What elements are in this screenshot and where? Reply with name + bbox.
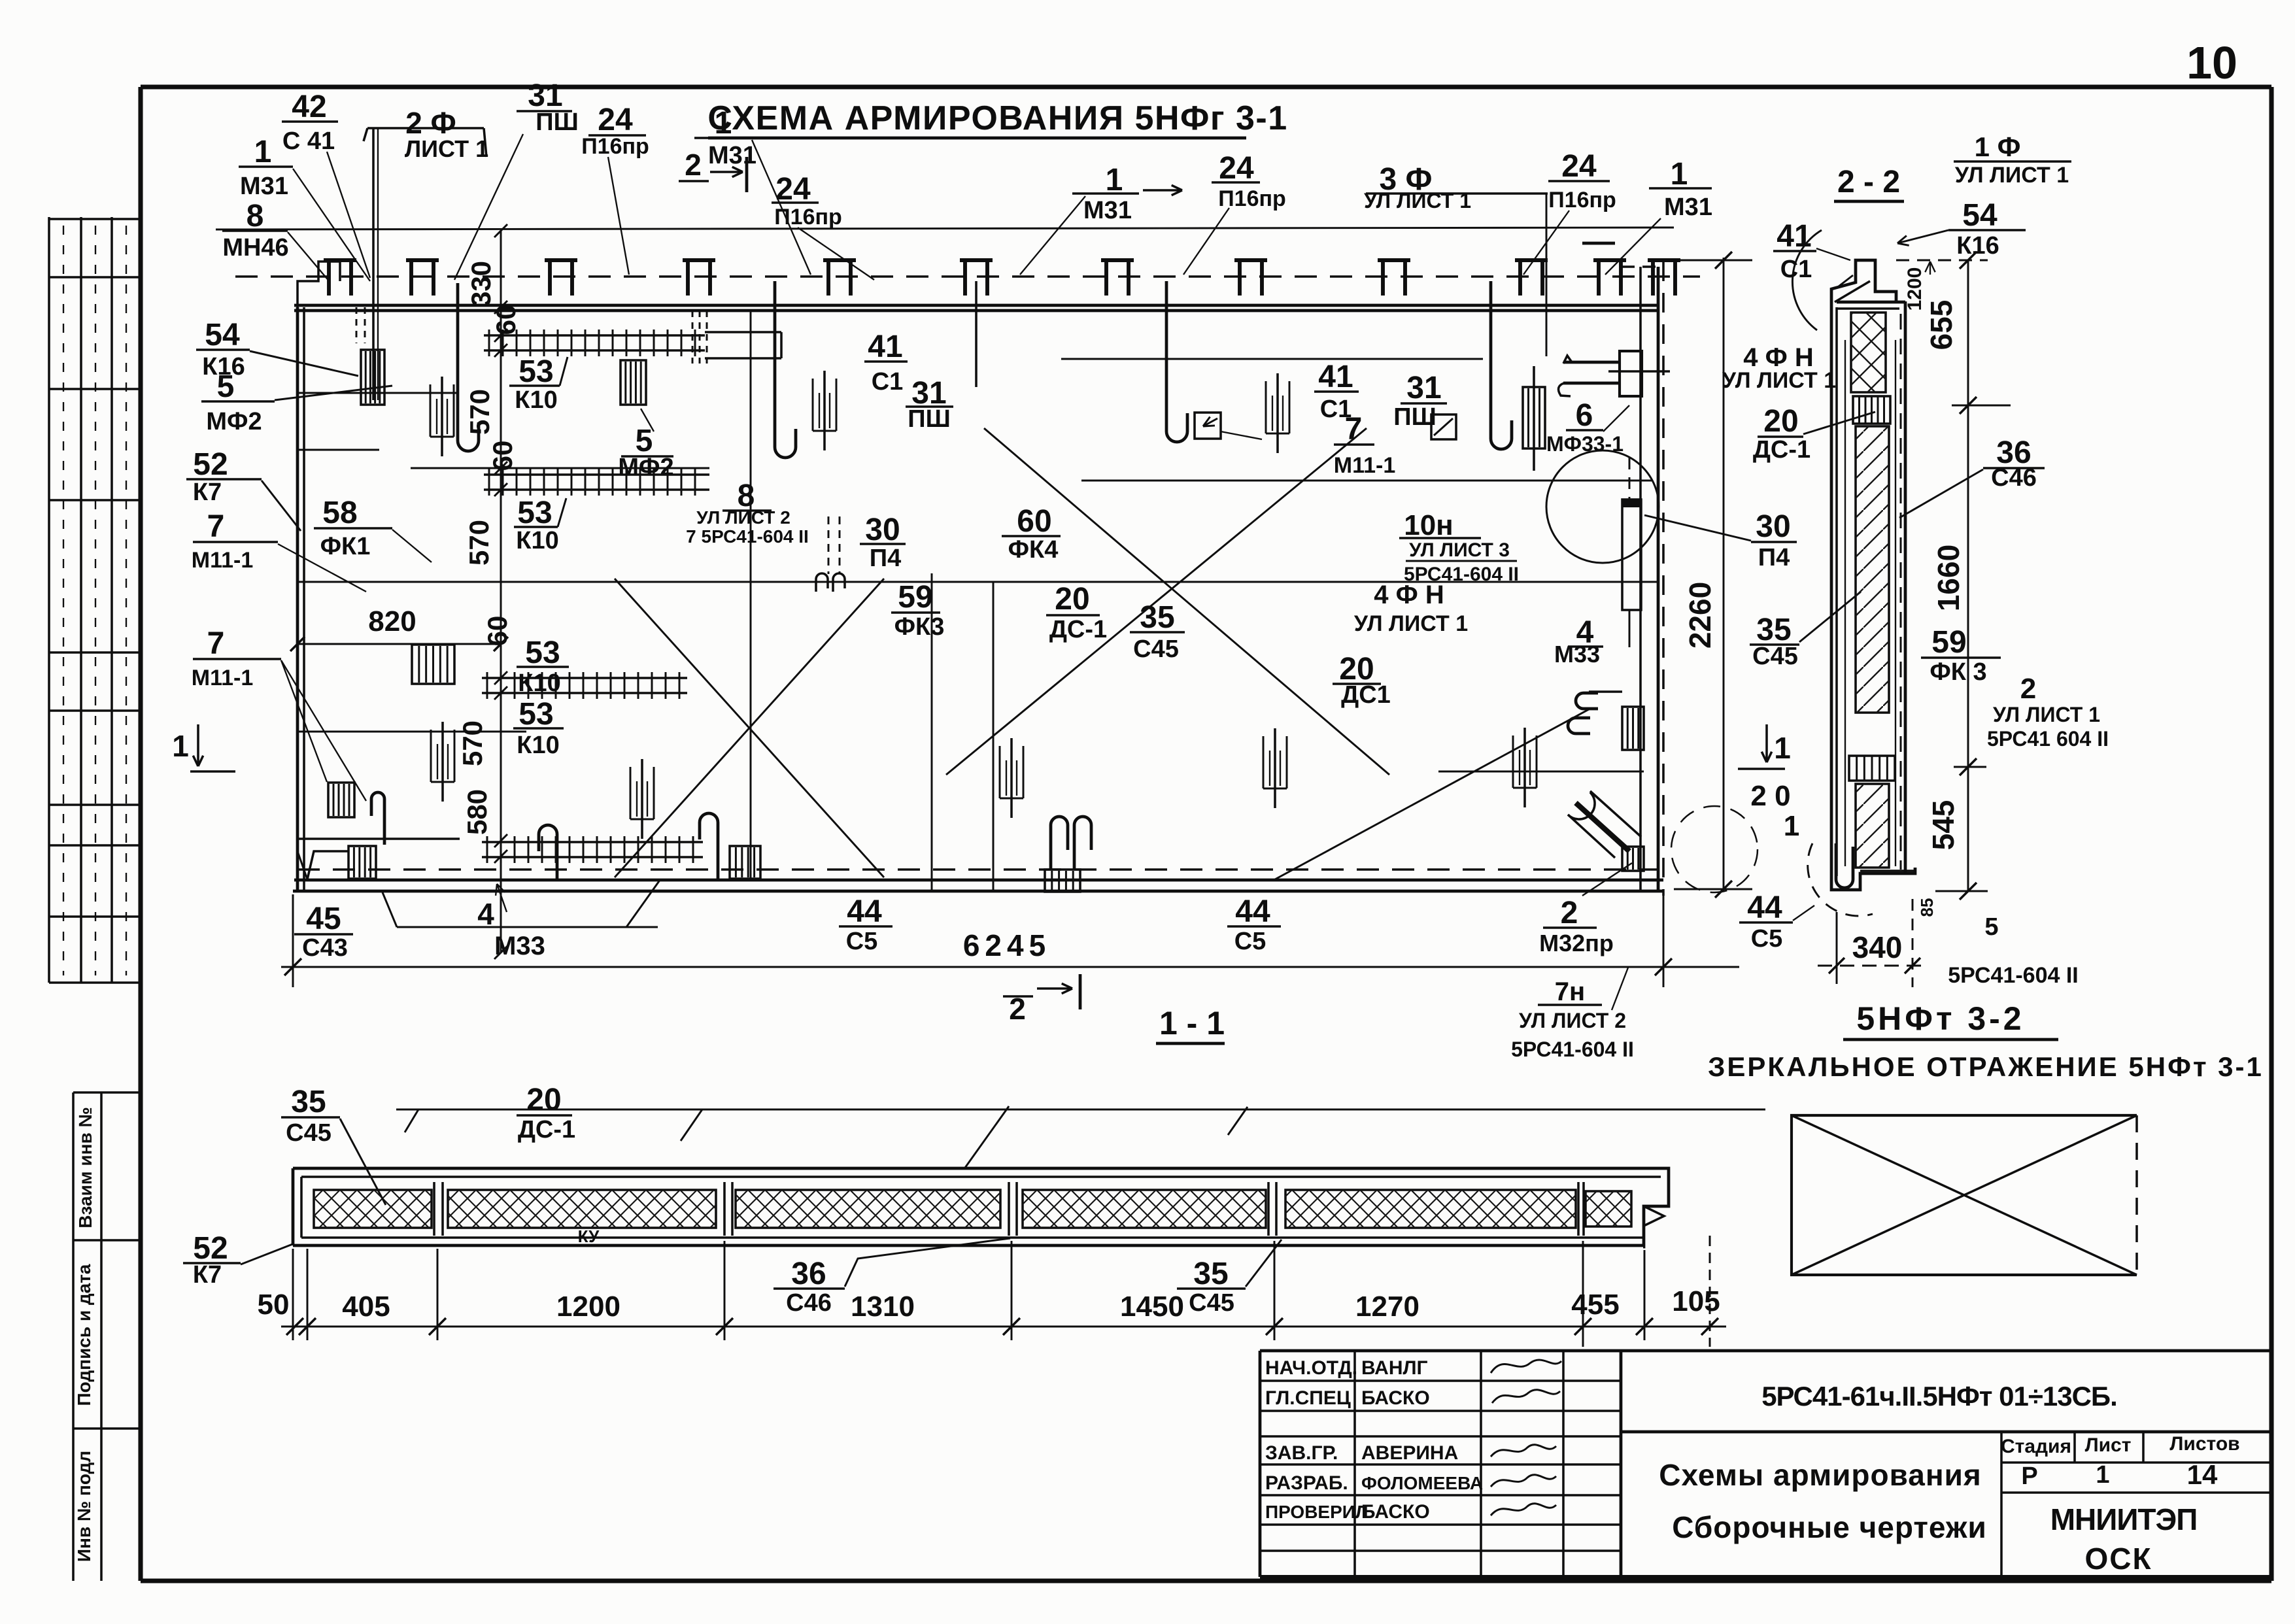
interior horizontal line y1119 <box>297 731 526 733</box>
strip separator 1 <box>434 1182 443 1236</box>
svg-text:7 5РС41-604 II: 7 5РС41-604 II <box>686 526 809 547</box>
label 52/K7 left <box>186 447 262 506</box>
svg-text:РАЗРАБ.: РАЗРАБ. <box>1265 1472 1348 1494</box>
leader 24/P16pr c <box>1183 208 1229 275</box>
label 54/K16 left <box>196 318 250 381</box>
label 1/M31 b <box>694 106 756 169</box>
label 2/M32pr <box>1539 896 1614 956</box>
strip hatch block 1 <box>314 1190 432 1228</box>
svg-text:85: 85 <box>1917 898 1937 917</box>
interior horizontal line y549 right <box>1061 358 1483 360</box>
svg-text:30: 30 <box>865 513 900 547</box>
svg-text:К10: К10 <box>518 669 560 697</box>
svg-text:41: 41 <box>1776 219 1811 254</box>
svg-text:УЛ ЛИСТ 1: УЛ ЛИСТ 1 <box>1955 163 2069 188</box>
dim 6245 <box>281 894 1739 987</box>
svg-text:П16пр: П16пр <box>774 205 842 229</box>
label 52/K7 strip <box>183 1231 241 1289</box>
svg-text:1: 1 <box>254 135 272 169</box>
svg-text:1450: 1450 <box>1120 1291 1184 1323</box>
svg-text:6245: 6245 <box>963 928 1051 962</box>
svg-text:УЛ ЛИСТ 1: УЛ ЛИСТ 1 <box>1364 189 1471 212</box>
label 59/FK3 a <box>891 580 944 641</box>
svg-text:1270: 1270 <box>1355 1291 1419 1323</box>
title block right grid <box>1621 1432 2271 1577</box>
label 4/M33 right <box>1554 615 1603 668</box>
svg-text:ГЛ.СПЕЦ: ГЛ.СПЕЦ <box>1265 1387 1351 1409</box>
svg-text:С45: С45 <box>1133 635 1179 663</box>
svg-text:М31: М31 <box>708 142 756 169</box>
svg-text:С 41: С 41 <box>282 127 335 155</box>
leader 41/C1 top right <box>1816 248 1850 260</box>
interior horizontal line y688 <box>297 449 379 451</box>
label 53/K10 b2 <box>514 496 559 554</box>
svg-text:ДС-1: ДС-1 <box>1049 616 1107 643</box>
svg-text:УЛ ЛИСТ 1: УЛ ЛИСТ 1 <box>1722 368 1836 393</box>
strip separator 4 <box>1268 1182 1276 1236</box>
leader 6/MF33-1 <box>1603 405 1629 431</box>
svg-text:4: 4 <box>477 897 494 931</box>
label 20/DS-1 a <box>1046 582 1107 643</box>
svg-text:М33: М33 <box>1554 641 1600 668</box>
section 2-2 middle hatch band <box>1856 426 1889 713</box>
ladder line 3 <box>482 672 687 699</box>
diagonal line d5 <box>1275 709 1589 879</box>
section 2-2 lower hatch band <box>1856 784 1889 868</box>
svg-text:20: 20 <box>526 1083 561 1117</box>
strip reference line top <box>396 1106 1765 1168</box>
svg-text:1: 1 <box>1106 163 1123 197</box>
mirror X rectangle <box>1792 1115 2137 1275</box>
svg-text:580: 580 <box>462 789 492 835</box>
strip hatch block 6 <box>1586 1191 1631 1226</box>
svg-text:БАСКО: БАСКО <box>1361 1501 1430 1523</box>
label 7/M11-1 left b <box>192 626 281 690</box>
svg-text:Стадия: Стадия <box>2001 1436 2071 1457</box>
label 53/K10 a <box>509 354 560 414</box>
interior vertical line x1519 <box>993 582 994 891</box>
label 1/M31 c with arrow <box>1072 163 1182 224</box>
svg-text:ПШ: ПШ <box>1393 403 1436 431</box>
svg-text:М11-1: М11-1 <box>192 666 254 690</box>
panel bottom edge <box>293 870 1663 891</box>
svg-text:1 - 1: 1 - 1 <box>1159 1005 1225 1041</box>
label 1/M31 d <box>1649 157 1712 221</box>
label 2F/LIST1 bracket <box>364 106 488 162</box>
svg-text:53: 53 <box>517 496 552 530</box>
svg-text:2: 2 <box>2020 673 2036 705</box>
hatched rect b <box>620 360 646 405</box>
hatched stirrup right <box>1523 366 1545 471</box>
svg-text:МН46: МН46 <box>222 234 288 262</box>
svg-text:Схемы армирования: Схемы армирования <box>1659 1458 1981 1492</box>
vertical dim chain labels <box>457 224 521 959</box>
svg-text:59: 59 <box>1931 625 1966 660</box>
hatched rect corner <box>348 846 376 879</box>
svg-text:54: 54 <box>1962 198 1997 233</box>
svg-text:41: 41 <box>868 330 902 364</box>
dashed legs below pi at 550 <box>356 307 365 343</box>
svg-text:1: 1 <box>2096 1461 2109 1489</box>
svg-text:ЗАВ.ГР.: ЗАВ.ГР. <box>1265 1442 1338 1464</box>
hatched rect a <box>361 350 384 405</box>
ladder line 1 <box>484 330 705 356</box>
svg-text:44: 44 <box>1235 894 1270 929</box>
svg-text:ПРОВЕРИЛ: ПРОВЕРИЛ <box>1265 1502 1368 1522</box>
left margin lower cells <box>73 1092 141 1581</box>
leader 54/K16 right <box>1897 230 1948 243</box>
strip outline <box>293 1168 1669 1247</box>
leader 52/K7 strip <box>241 1243 294 1264</box>
label 44/C5 b <box>1227 894 1281 955</box>
strip hatch block 3 <box>736 1190 1000 1228</box>
svg-text:330: 330 <box>466 261 496 307</box>
box symbol right <box>1431 414 1456 439</box>
leader 35/C45 strip right <box>1246 1240 1282 1287</box>
svg-text:2260: 2260 <box>1683 582 1717 649</box>
label 30/P4 a <box>860 513 906 572</box>
label 24/P16pr a <box>581 103 649 159</box>
svg-text:1660: 1660 <box>1931 545 1965 611</box>
svg-text:570: 570 <box>464 389 495 435</box>
label 59/FK3 right <box>1921 625 2001 686</box>
svg-text:24: 24 <box>775 172 811 207</box>
svg-text:ОСК: ОСК <box>2084 1542 2152 1576</box>
svg-text:10н: 10н <box>1404 509 1453 541</box>
svg-text:П4: П4 <box>870 545 901 572</box>
leader 54/K16 left <box>250 351 358 376</box>
section marker 2 bottom <box>1003 974 1080 1026</box>
detail circle big <box>1546 450 1659 563</box>
label 60/FK4 <box>1002 504 1061 564</box>
leader 20/DS-1 right <box>1803 412 1875 434</box>
svg-text:44: 44 <box>1747 890 1782 925</box>
svg-text:35: 35 <box>1193 1257 1228 1291</box>
svg-text:М11-1: М11-1 <box>1334 453 1396 478</box>
label 31/PSh top <box>517 78 579 136</box>
leader 8/MN46 <box>288 232 330 282</box>
interior vertical line x1148 <box>750 312 752 879</box>
label 41/C1 b <box>1314 360 1359 423</box>
svg-text:К10: К10 <box>515 386 557 414</box>
label 36/C46 strip <box>773 1257 845 1317</box>
panel top-left corner step <box>297 262 340 307</box>
shelf reference line <box>216 228 1674 229</box>
svg-text:7: 7 <box>1345 412 1363 447</box>
label 35/C45 strip left <box>281 1085 340 1147</box>
label 4/M33 bottom <box>382 879 660 960</box>
section 2-2 top crosshatch block <box>1851 313 1886 392</box>
hatched rect e <box>328 783 354 817</box>
leader 1/M31 a <box>293 169 370 281</box>
svg-text:С45: С45 <box>1189 1289 1234 1317</box>
svg-text:24: 24 <box>598 103 633 137</box>
svg-text:4 Ф Н: 4 Ф Н <box>1374 581 1444 609</box>
main title <box>707 99 1287 138</box>
section 2-2 coil 1 <box>1853 396 1890 424</box>
label 35/C45 a <box>1130 600 1185 663</box>
svg-text:ФК1: ФК1 <box>320 533 371 560</box>
label 53/K10 D <box>513 697 564 759</box>
svg-text:М32пр: М32пр <box>1539 930 1614 956</box>
svg-text:М31: М31 <box>1664 194 1712 221</box>
stirrup row lower <box>431 722 454 802</box>
svg-text:СХЕМА АРМИРОВАНИЯ 5НФг 3-1: СХЕМА АРМИРОВАНИЯ 5НФг 3-1 <box>707 99 1287 137</box>
label 24/P16pr b <box>772 172 842 229</box>
title block subject <box>1659 1458 1986 1544</box>
svg-text:М31: М31 <box>240 173 288 200</box>
j-hook bar 2 <box>458 283 479 451</box>
svg-text:5: 5 <box>217 369 235 404</box>
leader 5/MF2 left <box>275 386 392 400</box>
leaders 7/M11-1 left b <box>281 660 366 801</box>
interior horizontal mid line y890 <box>297 581 1659 583</box>
up-hook small <box>539 825 557 879</box>
panel left edge <box>297 307 304 891</box>
label 5NFt 3-2 title <box>1843 1000 2058 1040</box>
label 30/P4 right <box>1751 509 1797 571</box>
leader 1/M31 c <box>1020 196 1085 275</box>
label 20/DS-1 right <box>1753 404 1810 464</box>
label 7/M11-1 left a <box>192 509 278 573</box>
label 1F/UL LIST 1 top <box>1954 131 2071 188</box>
small up-hook left <box>371 792 384 845</box>
svg-text:УЛ ЛИСТ 2: УЛ ЛИСТ 2 <box>696 507 790 528</box>
leader 2/M32pr <box>1582 863 1632 896</box>
label 41/C1 top right <box>1773 219 1816 283</box>
label 20/DS-1 strip <box>517 1083 575 1143</box>
svg-text:М11-1: М11-1 <box>192 548 254 573</box>
dashed legs below pi at 1069 <box>692 311 707 364</box>
svg-text:С43: С43 <box>302 934 348 962</box>
svg-text:58: 58 <box>322 496 357 530</box>
interior horizontal line y601 <box>297 392 458 394</box>
svg-text:53: 53 <box>525 635 560 670</box>
strip separator 3 <box>1009 1182 1017 1236</box>
section marker 1 left <box>172 724 235 771</box>
svg-text:545: 545 <box>1926 800 1960 851</box>
svg-text:405: 405 <box>342 1291 390 1323</box>
svg-text:ДС-1: ДС-1 <box>518 1116 575 1143</box>
svg-text:50: 50 <box>258 1289 290 1321</box>
j-hook bar 5 <box>1491 281 1512 449</box>
dashed bar pair above 30/P4 label <box>816 516 845 592</box>
label 31/PSh b <box>906 376 953 433</box>
leader 36/C46 strip <box>845 1238 1010 1287</box>
label 4FN/UL LIST1 a <box>1354 581 1468 636</box>
section marker 1 right <box>1738 724 1799 842</box>
label 1/M31 a <box>239 135 293 200</box>
mark above MF33-1 <box>1582 242 1615 245</box>
strip hatch block 5 <box>1285 1190 1576 1228</box>
svg-text:Взаим инв №: Взаим инв № <box>75 1107 95 1228</box>
panel right edge <box>1622 262 1664 896</box>
svg-text:УЛ ЛИСТ 3: УЛ ЛИСТ 3 <box>1409 539 1510 561</box>
strip separator 2 <box>724 1182 732 1236</box>
svg-text:М33: М33 <box>494 932 545 960</box>
ladder line 4 <box>482 836 703 863</box>
svg-text:ФК 3: ФК 3 <box>1929 658 1986 686</box>
leader 7/M11-1 left a <box>278 544 366 592</box>
diagonal line d4 <box>615 579 884 877</box>
detail circle dashed bottom-right <box>1671 806 1758 892</box>
double up-hook <box>1051 817 1091 870</box>
svg-text:ДС1: ДС1 <box>1341 681 1391 709</box>
dim 820 <box>290 605 508 651</box>
svg-text:41: 41 <box>1318 360 1353 394</box>
svg-text:59: 59 <box>898 580 932 615</box>
svg-text:570: 570 <box>457 720 488 766</box>
label 45/C43 <box>294 902 353 962</box>
label 2-2 title <box>1834 165 1904 201</box>
svg-text:МНИИТЭП: МНИИТЭП <box>2050 1502 2198 1536</box>
leader 24/P16pr b <box>798 228 874 280</box>
svg-text:2: 2 <box>1561 896 1578 930</box>
svg-text:ФОЛОМЕЕВА: ФОЛОМЕЕВА <box>1361 1473 1483 1493</box>
svg-text:54: 54 <box>205 318 240 352</box>
label 58/FK1 <box>314 496 392 560</box>
label 8/UL LIST2 cluster <box>686 479 809 547</box>
leader 44/C5 c <box>1793 905 1814 921</box>
svg-text:П4: П4 <box>1758 544 1790 571</box>
svg-text:П16пр: П16пр <box>1218 186 1286 211</box>
strip dimension row <box>258 1236 1726 1347</box>
label 24/P16pr d <box>1548 149 1616 212</box>
svg-text:1310: 1310 <box>851 1291 915 1323</box>
svg-text:53: 53 <box>518 697 553 732</box>
staff titles <box>1265 1357 1368 1522</box>
label 5/MF2 left <box>201 369 275 435</box>
svg-text:6: 6 <box>1576 398 1593 433</box>
svg-text:10: 10 <box>2186 37 2237 88</box>
svg-text:С5: С5 <box>1234 928 1266 955</box>
svg-text:5РС41-61ч.II.5НФт 01÷13СБ.: 5РС41-61ч.II.5НФт 01÷13СБ. <box>1761 1381 2117 1412</box>
svg-text:655: 655 <box>1924 300 1958 350</box>
box with arrow symbol <box>1195 413 1262 439</box>
j-hook bar 4 <box>1166 281 1187 442</box>
svg-text:8: 8 <box>246 199 264 233</box>
section 2-2 bottom cap <box>1831 843 1915 890</box>
j-hook bar 3 <box>775 281 796 458</box>
label 42/C41 <box>282 90 338 155</box>
label 7n/UL LIST2 bottom <box>1511 968 1634 1061</box>
label 36/C46 right <box>1983 435 2045 492</box>
title block staff table <box>1260 1351 2271 1577</box>
svg-text:5: 5 <box>1984 913 1998 941</box>
svg-text:С45: С45 <box>1752 643 1798 670</box>
svg-text:570: 570 <box>464 520 494 566</box>
label 2/UL LIST1 right <box>1987 673 2109 751</box>
section 2-2 dim line <box>1917 252 2011 917</box>
svg-text:К7: К7 <box>193 479 222 506</box>
svg-text:МФ33-1: МФ33-1 <box>1546 432 1623 456</box>
dim 2260 vertical <box>1674 252 1752 898</box>
label 24/P16pr c <box>1212 151 1286 211</box>
label 44/C5 a <box>839 894 892 955</box>
corner diagonal element M32pr <box>1568 791 1644 871</box>
svg-text:5РС41-604 II: 5РС41-604 II <box>1948 963 2079 988</box>
svg-text:20: 20 <box>1055 582 1089 617</box>
svg-text:ЛИСТ 1: ЛИСТ 1 <box>405 135 488 162</box>
svg-text:ЗЕРКАЛЬНОЕ ОТРАЖЕНИЕ 5НФт 3-1: ЗЕРКАЛЬНОЕ ОТРАЖЕНИЕ 5НФт 3-1 <box>1708 1051 2264 1082</box>
leader 35/C45 strip left <box>340 1119 386 1205</box>
svg-text:35: 35 <box>291 1085 326 1119</box>
svg-text:ФК4: ФК4 <box>1008 536 1059 564</box>
svg-text:1200: 1200 <box>1904 267 1926 311</box>
svg-text:АВЕРИНА: АВЕРИНА <box>1361 1442 1458 1464</box>
up-hook big <box>700 813 718 879</box>
svg-text:1: 1 <box>1774 731 1791 765</box>
leader 5/MF2 b <box>641 409 654 431</box>
diagonal line d1 <box>946 428 1367 775</box>
svg-text:5РС41 604 II: 5РС41 604 II <box>1987 727 2109 751</box>
svg-text:УЛ ЛИСТ 2: УЛ ЛИСТ 2 <box>1519 1009 1626 1032</box>
label 35/C45 right <box>1750 613 1799 670</box>
label 7/M11-1 b <box>1334 412 1396 478</box>
svg-text:1200: 1200 <box>556 1291 620 1323</box>
title block stage cells <box>2001 1433 2240 1490</box>
interior horizontal line y1180 right <box>1438 771 1644 773</box>
interior vertical line x1425 <box>931 573 933 891</box>
svg-text:ПШ: ПШ <box>908 405 951 433</box>
section marker 2 top <box>679 148 747 192</box>
svg-text:2 - 2: 2 - 2 <box>1837 165 1900 199</box>
leader 24/P16pr a <box>608 157 629 275</box>
label 41/C1 a <box>864 330 908 396</box>
section 2-2 detail arc top <box>1792 230 1822 330</box>
svg-text:Инв № подл: Инв № подл <box>74 1451 94 1562</box>
label 6/MF33-1 <box>1546 398 1623 456</box>
label 10n/UL LIST3 cluster <box>1399 509 1519 585</box>
svg-text:52: 52 <box>193 447 228 482</box>
strip hatch block 2 <box>448 1190 716 1228</box>
svg-text:1: 1 <box>715 106 732 141</box>
svg-text:С5: С5 <box>846 928 878 955</box>
svg-text:П16пр: П16пр <box>581 134 649 159</box>
pi symbols row <box>324 260 356 296</box>
leader 1/M31 d <box>1605 218 1661 275</box>
staff signatures <box>1491 1360 1561 1515</box>
leader 35/C45 right <box>1799 592 1861 642</box>
label 35/C45 strip right <box>1177 1257 1246 1317</box>
svg-text:105: 105 <box>1672 1285 1720 1317</box>
hatched rect f <box>730 846 760 879</box>
svg-text:35: 35 <box>1140 600 1174 635</box>
hatched rect double-hook base <box>1045 870 1080 892</box>
vertical bar P4 right <box>1622 458 1641 647</box>
svg-text:5РС41-604 II: 5РС41-604 II <box>1511 1038 1634 1061</box>
corner element M33 right <box>1568 692 1644 750</box>
section 2-2 coil 2 <box>1849 756 1895 781</box>
leader 31/PSh top <box>454 134 523 280</box>
leader 53/K10 a <box>560 357 568 386</box>
corner element MF33-1 <box>1558 351 1670 396</box>
svg-text:60: 60 <box>1017 504 1051 539</box>
svg-text:340: 340 <box>1852 930 1903 964</box>
panel axis dashed line <box>235 275 1700 278</box>
svg-text:1 Ф: 1 Ф <box>1975 131 2021 162</box>
svg-text:30: 30 <box>1756 509 1790 544</box>
svg-text:К10: К10 <box>516 527 558 554</box>
label 54/K16 right <box>1948 198 2026 260</box>
svg-text:Лист: Лист <box>2085 1434 2132 1456</box>
svg-text:36: 36 <box>791 1257 826 1291</box>
svg-text:Подпись и дата: Подпись и дата <box>74 1264 94 1406</box>
leader 53/K10 b2 <box>558 498 566 527</box>
leader 42/C41 <box>327 152 370 278</box>
svg-text:2: 2 <box>685 148 702 182</box>
svg-text:С45: С45 <box>286 1119 331 1147</box>
